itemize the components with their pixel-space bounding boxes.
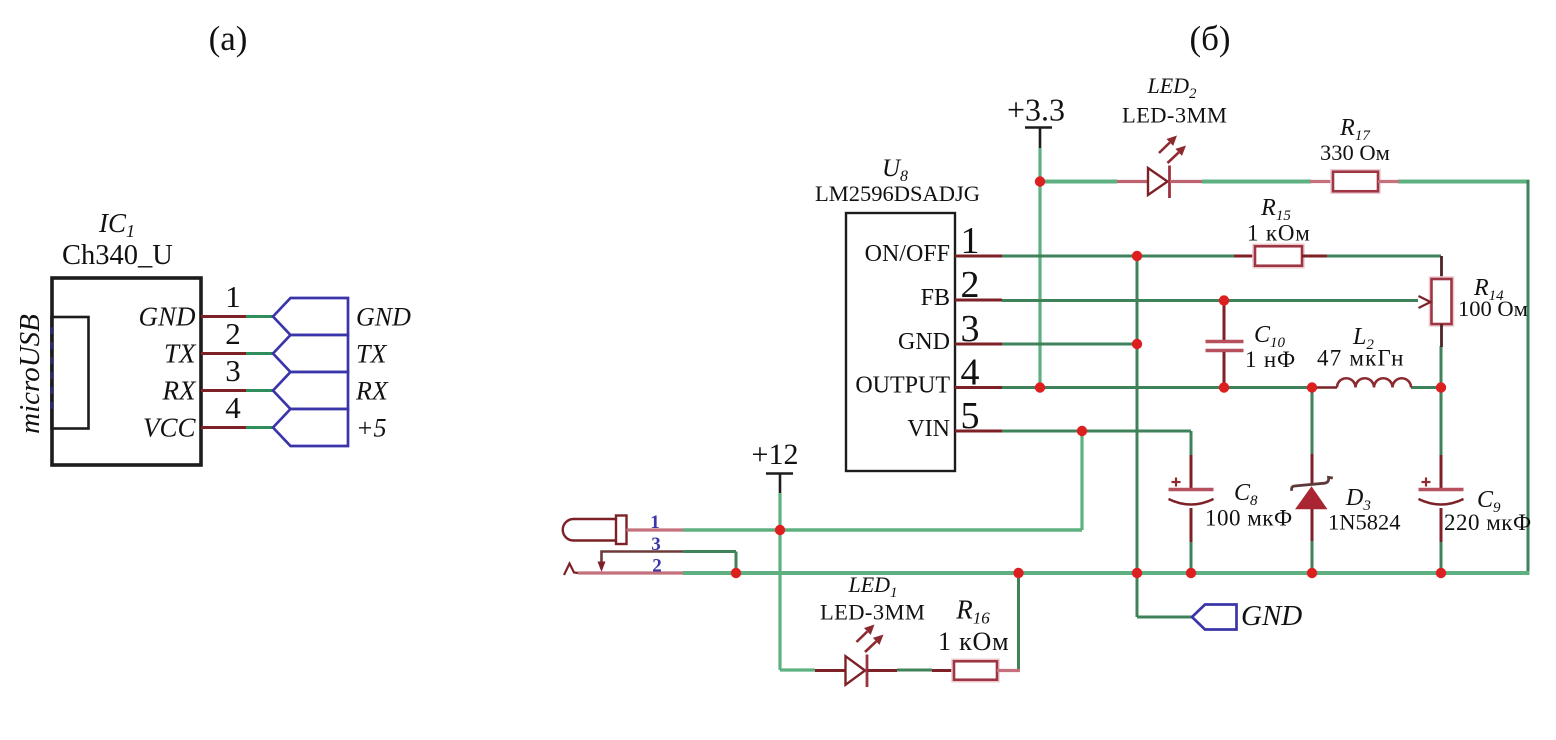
svg-text:VIN: VIN (907, 416, 950, 442)
junction node 2 (1035, 382, 1045, 392)
svg-text:1: 1 (225, 279, 241, 314)
wire right edge vertical (1527, 180, 1530, 573)
L2 left lead (1312, 386, 1337, 389)
svg-text:GND: GND (138, 302, 196, 332)
wire ON/OFF row (1002, 255, 1234, 258)
diode D3 triangle (1297, 488, 1327, 509)
wire R16 riser (1017, 573, 1020, 670)
svg-text:1: 1 (650, 512, 660, 533)
wire D3 bottom (1311, 540, 1314, 573)
resistor R15 body (1254, 245, 1304, 268)
IC1 pin 1 stub (201, 315, 246, 318)
wire C8 top (1190, 431, 1193, 456)
wire pin3 drop (735, 552, 738, 574)
R15 left lead (1234, 255, 1255, 258)
svg-text:OUTPUT: OUTPUT (855, 373, 950, 399)
wire R17 to right edge (1398, 180, 1530, 184)
svg-text:330 Ом: 330 Ом (1320, 140, 1390, 165)
U8 pin 2 stub (955, 299, 1002, 302)
wire pin 2 to flag (246, 352, 273, 355)
wire D3 top (1311, 388, 1314, 456)
svg-text:GND: GND (1241, 600, 1302, 632)
svg-text:4: 4 (225, 390, 241, 425)
LED2 cathode lead (1170, 180, 1202, 183)
svg-text:220 мкФ: 220 мкФ (1444, 510, 1532, 535)
svg-text:(a): (a) (209, 19, 248, 58)
svg-text:1N5824: 1N5824 (1328, 510, 1401, 535)
wire L2 to junction (1411, 386, 1441, 389)
svg-text:LED-3MM: LED-3MM (820, 600, 925, 625)
IC1 pin 3 stub (201, 389, 246, 392)
svg-text:2: 2 (225, 316, 241, 351)
R15 right lead (1302, 255, 1327, 258)
wire C9 top (1440, 388, 1443, 457)
junction node 4 (1132, 251, 1142, 261)
wire connector pin3 row (683, 550, 736, 553)
svg-text:1 кОм: 1 кОм (1247, 221, 1311, 246)
svg-text:ON/OFF: ON/OFF (865, 241, 950, 267)
svg-text:LM2596DSADJG: LM2596DSADJG (815, 181, 980, 206)
C9 bottom lead (1440, 508, 1443, 542)
svg-text:TX: TX (164, 339, 197, 369)
junction node 5 (1132, 339, 1142, 349)
connector pin 2 lead (578, 571, 683, 574)
junction node 3 (1077, 426, 1087, 436)
LED1 anode lead (815, 669, 846, 672)
junction node 14 (1013, 568, 1023, 578)
svg-text:100 мкФ: 100 мкФ (1205, 506, 1293, 531)
U8 pin 5 stub (955, 430, 1002, 433)
resistor R16 body (953, 660, 999, 682)
connector J1 center pin barrel (563, 519, 617, 541)
svg-text:TX: TX (356, 340, 387, 369)
regulator U8 body (846, 213, 955, 471)
svg-text:3: 3 (225, 353, 241, 388)
svg-text:RX: RX (355, 377, 389, 406)
svg-text:RX: RX (162, 376, 197, 406)
net flag TX (273, 335, 348, 372)
net flag +5 (273, 409, 348, 446)
IC1 pin 4 stub (201, 426, 246, 429)
wire LED2 row left (1043, 180, 1117, 184)
potentiometer R14 body (1430, 278, 1453, 326)
wire C8 bottom (1190, 541, 1193, 573)
svg-text:VCC: VCC (143, 413, 197, 443)
svg-text:GND: GND (356, 303, 411, 332)
connector J1 collar (616, 516, 627, 545)
svg-text:FB: FB (921, 285, 950, 311)
R17 right lead (1378, 180, 1399, 183)
svg-text:+12: +12 (752, 438, 799, 471)
wire to GND flag (1137, 616, 1192, 619)
connector switch arrow (598, 562, 606, 573)
power symbol +3.3 stub (1039, 128, 1042, 150)
svg-text:(б): (б) (1189, 19, 1230, 58)
U8 pin 3 stub (955, 343, 1002, 346)
D3 top lead (1311, 454, 1314, 484)
C9 top lead (1440, 455, 1443, 489)
C10 top lead (1223, 301, 1226, 341)
power symbol +12 bar (766, 472, 793, 475)
IC1 pin 2 stub (201, 352, 246, 355)
junction node 16 (775, 525, 785, 535)
wire FB row (1002, 299, 1418, 302)
wire +12 vertical (778, 493, 781, 670)
wire C9 bottom (1440, 541, 1443, 573)
wire VIN row (1002, 430, 1191, 433)
C8 top lead (1190, 455, 1193, 489)
LED1 cathode lead (868, 669, 898, 672)
net flag RX (273, 372, 348, 409)
R14 top lead (1440, 256, 1443, 280)
capacitor C10 plates (1206, 340, 1244, 343)
connector pin 3 corner (602, 552, 684, 563)
svg-text:3: 3 (651, 534, 661, 555)
junction node 6 (1132, 568, 1142, 578)
wire pin 3 to flag (246, 389, 273, 392)
svg-text:47 мкГн: 47 мкГн (1317, 346, 1405, 371)
wire R15 to R14 corner (1327, 255, 1441, 258)
wire LED2 to R17 (1202, 180, 1311, 184)
junction node 15 (731, 568, 741, 578)
LED2 anode lead (1117, 180, 1148, 183)
diode D3 cathode bar (1292, 477, 1333, 490)
wire LED1 to R16 (897, 669, 932, 672)
wire pin 1 to flag (246, 315, 273, 318)
R14 bottom lead (1440, 324, 1443, 347)
junction node 1 (1035, 176, 1045, 186)
svg-text:Ch340_U: Ch340_U (62, 240, 173, 271)
connector switch squiggle (564, 564, 579, 576)
microUSB pin dashes (50, 327, 53, 417)
R17 left lead (1310, 180, 1333, 183)
microUSB connector body (52, 317, 89, 429)
junction node 13 (1186, 568, 1196, 578)
svg-text:LED-3MM: LED-3MM (1122, 103, 1227, 128)
D3 bottom lead (1311, 509, 1314, 541)
wire +3.3 vertical (1038, 148, 1041, 388)
svg-text:GND: GND (898, 329, 950, 355)
svg-text:100 Ом: 100 Ом (1458, 296, 1528, 321)
C8 bottom lead (1190, 508, 1193, 542)
wire pin 4 to flag (246, 426, 273, 429)
wire R14 bottom (1440, 346, 1443, 388)
wire OUTPUT row (1002, 386, 1312, 389)
U8 pin 4 stub (955, 386, 1002, 389)
U8 pin 1 stub (955, 255, 1002, 258)
svg-text:LED1: LED1 (847, 572, 897, 601)
junction node 11 (1436, 382, 1446, 392)
junction node 10 (1307, 568, 1317, 578)
wire ground rail (683, 571, 1530, 575)
resistor R17 body (1332, 170, 1380, 193)
R14 wiper arrow (1419, 296, 1431, 308)
power symbol +3.3 bar (1025, 126, 1052, 129)
C10 bottom lead (1223, 352, 1226, 388)
R16 left lead (932, 669, 954, 672)
power symbol +12 stub (779, 474, 782, 494)
wire connector pin1 row (683, 528, 1082, 531)
wire GND vertical (1136, 256, 1139, 617)
junction node 9 (1307, 382, 1317, 392)
junction node 7 (1219, 295, 1229, 305)
diode LED2 (1148, 168, 1168, 195)
junction node 12 (1436, 568, 1446, 578)
IC IC1 body (52, 278, 201, 465)
junction node 8 (1219, 382, 1229, 392)
R16 right lead (997, 669, 1020, 672)
net flag GND (273, 298, 348, 335)
capacitor C8 symbol (1172, 481, 1181, 483)
capacitor C9 symbol (1422, 481, 1431, 483)
net flag GND (1192, 605, 1237, 630)
wire LED1 row left (780, 668, 815, 671)
svg-text:microUSB: microUSB (14, 314, 46, 434)
wire VIN drop to pin1 row (1080, 431, 1083, 530)
connector pin 1 lead (627, 528, 684, 531)
inductor L2 coils (1337, 378, 1411, 387)
svg-text:+3.3: +3.3 (1007, 92, 1065, 128)
svg-text:+5: +5 (356, 414, 387, 443)
svg-text:1 нФ: 1 нФ (1245, 347, 1296, 372)
svg-text:2: 2 (652, 556, 662, 577)
diode LED1 (846, 656, 866, 685)
svg-text:1 кОм: 1 кОм (938, 627, 1009, 656)
wire GND pin row (1002, 343, 1137, 346)
